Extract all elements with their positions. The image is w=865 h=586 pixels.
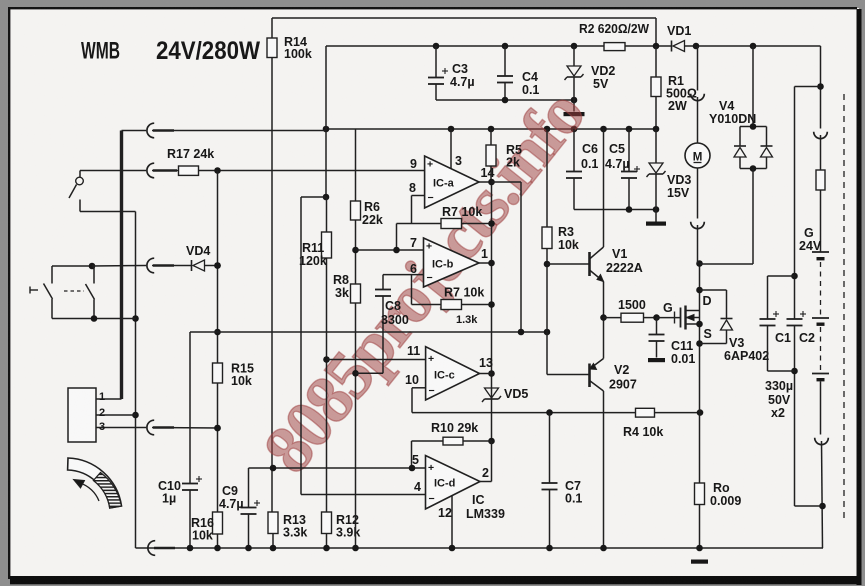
wire pin4 — [301, 196, 326, 198]
resistor R6 — [351, 201, 361, 220]
wire V4 top — [752, 46, 754, 127]
bridge V4 top bar — [740, 126, 767, 128]
wire pin5 line — [249, 467, 426, 469]
wire to C-bank — [795, 86, 821, 88]
op-amp U1b triangle — [424, 238, 480, 287]
throttle arrow — [80, 483, 99, 501]
capacitor C2 — [787, 318, 803, 320]
wire sense line — [412, 412, 700, 414]
capacitor C1 — [768, 275, 795, 277]
junction dots mid rail — [323, 126, 330, 133]
diode V3 loop — [700, 289, 727, 291]
switch S2 top bar — [52, 265, 92, 267]
wire V2 emitter — [603, 318, 605, 359]
capacitor C6 — [573, 129, 575, 172]
wire bottom rail — [136, 547, 824, 549]
wire R3 to V2 base — [546, 264, 548, 375]
capacitor C10 — [189, 332, 191, 484]
switch S2a — [51, 266, 53, 284]
pin 6 wire — [383, 274, 424, 276]
pin 13 output wire — [480, 373, 492, 375]
wire C6-C5-VD3 bottom — [574, 209, 656, 211]
wire +V rail — [326, 45, 604, 47]
diode VD1 — [671, 41, 673, 52]
wire top rail — [272, 17, 656, 19]
resistor R14 — [271, 18, 273, 38]
junction dot R17 — [214, 167, 221, 174]
capacitor C11 — [656, 318, 658, 335]
connector battery top — [814, 132, 828, 139]
pin 1 output wire — [479, 262, 492, 264]
wire V2 collector — [603, 391, 605, 548]
wire mid rail — [326, 128, 656, 130]
switch linkage — [64, 290, 84, 292]
junction dots column — [214, 262, 221, 269]
mosfet channel bar — [684, 306, 686, 330]
pin 10 wire — [412, 387, 426, 389]
wire C3-C4-VD2 bottom — [436, 99, 574, 101]
pin 7 wire — [356, 249, 424, 251]
ground under VD2 — [564, 112, 585, 116]
resistor R7 lower — [411, 275, 413, 305]
bridge V4 bottom bar — [740, 168, 767, 170]
throttle grip hatch — [93, 473, 121, 509]
wire key line upper — [122, 130, 147, 132]
wire column R15 — [217, 171, 219, 364]
resistor R12 — [322, 512, 332, 534]
junction dots key line — [132, 315, 139, 322]
fuse F1 — [816, 170, 825, 190]
wire motor top — [697, 46, 699, 91]
resistor Ro — [699, 413, 701, 483]
resistor R4 — [636, 408, 655, 417]
resistor R10 — [411, 441, 413, 468]
junction dot C8 node — [352, 370, 359, 377]
junction dot pin11 node — [323, 356, 330, 363]
wire R6 top — [355, 129, 357, 201]
wire bus to drive — [492, 181, 522, 183]
pin 11 wire — [327, 359, 426, 361]
ground under VD3 — [646, 222, 666, 226]
battery dashes 1 — [820, 262, 822, 316]
switch stub — [29, 287, 31, 294]
junction dots pin3 — [214, 425, 221, 432]
resistor R17 — [179, 166, 199, 175]
pin 14 output wire — [479, 181, 492, 183]
dashed battery boundary — [843, 94, 845, 520]
resistor R2 — [604, 43, 625, 51]
zener VD3 — [655, 129, 657, 163]
wire bank to battery — [795, 505, 823, 507]
resistor R3 — [546, 129, 548, 227]
junction dot pin7 node — [352, 247, 359, 254]
battery low plates — [812, 373, 829, 375]
pin 2 output wire — [480, 481, 492, 483]
wire drive line — [190, 331, 547, 333]
resistor R16 — [213, 512, 223, 534]
junction dots +V rail — [433, 43, 440, 50]
battery mid plates — [812, 317, 829, 319]
capacitor C9 — [248, 468, 250, 508]
mosfet S lead — [686, 323, 700, 325]
throttle grip symbol — [68, 458, 122, 508]
wire R17 line — [80, 170, 146, 172]
capacitor C8 — [382, 275, 384, 290]
resistor 1500 — [604, 317, 622, 319]
transistor Q2 V2 — [547, 374, 590, 376]
wire gate — [657, 317, 681, 319]
wire motor bottom — [697, 168, 699, 219]
pin 8 to R7 wire — [397, 223, 442, 225]
wire cap bank column — [794, 87, 796, 320]
op-amp U1d triangle — [426, 456, 481, 510]
pin 1 wire — [96, 398, 122, 400]
bus thick left — [120, 131, 123, 400]
resistor R13 — [268, 512, 278, 534]
wire key switch bottom — [79, 200, 81, 212]
mosfet body lead — [686, 317, 700, 319]
junction dots bus — [488, 179, 495, 186]
pin 3 wire — [96, 427, 146, 429]
border frame — [8, 7, 10, 579]
switch S2 bottom bar — [52, 318, 136, 320]
junction dot gate node — [653, 314, 660, 321]
wire V4 bottom — [752, 169, 754, 265]
wire output bus — [491, 182, 493, 441]
wire V1 collector — [603, 129, 605, 247]
box throttle pot — [68, 388, 96, 442]
ground under C11 — [648, 358, 665, 362]
resistor R8 — [351, 284, 361, 303]
junction dot VD4 — [214, 262, 221, 269]
battery G plates — [812, 251, 829, 253]
motor M — [685, 143, 710, 168]
zener VD2 — [573, 46, 575, 66]
wire V1 emitter — [603, 282, 605, 318]
junction dots bottom rail — [187, 545, 194, 552]
resistor R11 — [326, 197, 328, 232]
zener VD5 — [485, 388, 499, 398]
pin 2 wire — [96, 414, 136, 416]
capacitor C3 — [435, 46, 437, 78]
transistor Q1 V1 — [547, 263, 590, 265]
resistor R1 — [655, 46, 657, 77]
mosfet V gate bar — [680, 308, 682, 328]
switch S2b — [93, 266, 95, 284]
pin 8 wire — [412, 195, 425, 197]
capacitor C4 — [504, 46, 506, 76]
wire top-rail right drop — [655, 18, 657, 46]
op-amp U1a triangle — [425, 156, 479, 208]
resistor R7 upper — [441, 219, 462, 229]
switch S1 key — [79, 171, 81, 178]
junction dot drive node — [600, 314, 607, 321]
pin 3 wire — [450, 129, 452, 169]
wire battery top — [820, 45, 822, 47]
wire drain-source column — [699, 264, 701, 413]
ground bottom — [691, 560, 708, 564]
wire rail drop x326 — [325, 46, 327, 197]
resistor R5 — [490, 129, 492, 145]
capacitor C7 — [549, 413, 551, 483]
mosfet D lead — [686, 310, 700, 312]
pin 12 wire — [451, 496, 453, 549]
diode V4a — [739, 127, 741, 147]
diode VD4 — [191, 260, 193, 271]
capacitor C5 — [628, 129, 630, 172]
op-amp U1c triangle — [426, 347, 480, 400]
wire VD4 line — [92, 265, 146, 268]
resistor R15 — [213, 363, 223, 383]
battery dashes 2 — [820, 327, 822, 370]
connector battery bottom — [820, 382, 822, 435]
diode V4b — [766, 127, 768, 147]
